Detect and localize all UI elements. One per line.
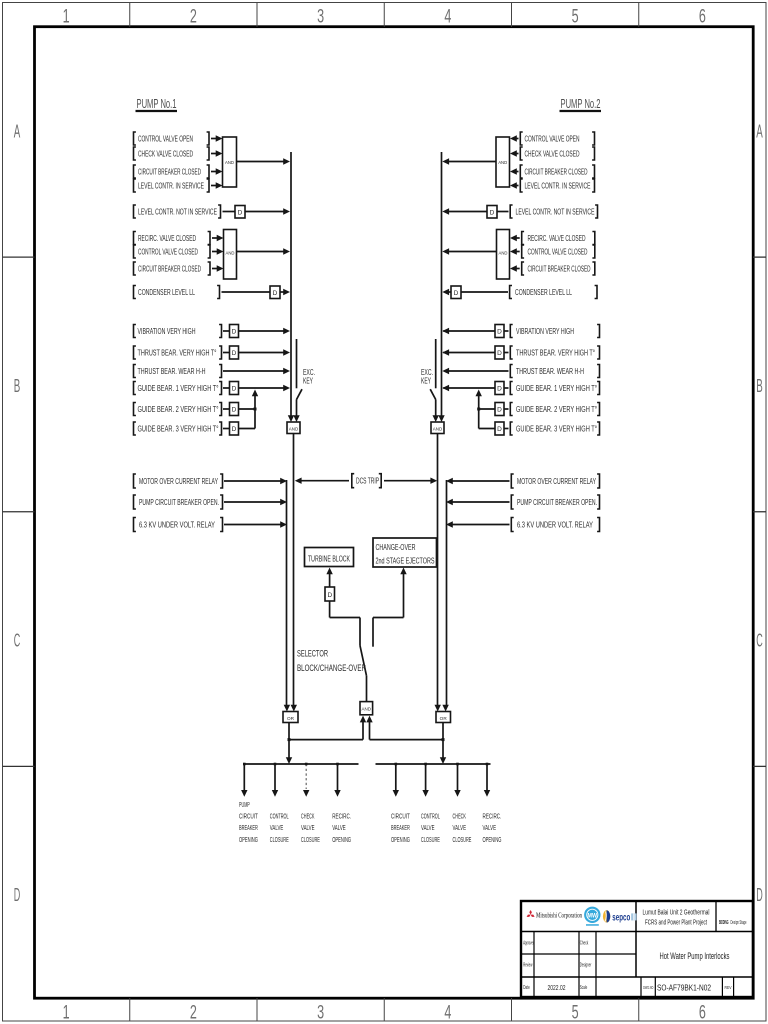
svg-text:6.3 KV UNDER VOLT. RELAY: 6.3 KV UNDER VOLT. RELAY [517, 519, 593, 529]
svg-text:THRUST BEAR. VERY HIGH T°: THRUST BEAR. VERY HIGH T° [138, 347, 217, 357]
svg-text:D: D [497, 386, 502, 393]
svg-text:D: D [232, 407, 237, 414]
svg-text:BREAKER: BREAKER [391, 825, 410, 832]
svg-text:CONTROL: CONTROL [270, 814, 289, 821]
svg-text:6.3 KV UNDER VOLT. RELAY: 6.3 KV UNDER VOLT. RELAY [139, 519, 215, 529]
svg-text:3: 3 [317, 7, 324, 28]
svg-text:VALVE: VALVE [483, 825, 497, 832]
svg-text:CIRCUIT BREAKER CLOSED: CIRCUIT BREAKER CLOSED [525, 166, 588, 176]
svg-text:C: C [756, 631, 763, 651]
svg-text:CHANGE-OVER: CHANGE-OVER [376, 543, 416, 552]
svg-text:GUIDE BEAR. 3 VERY HIGH T°: GUIDE BEAR. 3 VERY HIGH T° [138, 423, 219, 433]
svg-text:4: 4 [444, 1003, 451, 1024]
svg-text:2022.02: 2022.02 [548, 983, 566, 992]
svg-text:5: 5 [572, 1003, 579, 1024]
svg-text:Scale: Scale [580, 985, 588, 991]
svg-text:D: D [232, 426, 237, 433]
svg-text:D: D [497, 329, 502, 336]
svg-text:CLOSURE: CLOSURE [301, 837, 320, 844]
svg-text:D: D [232, 329, 237, 336]
svg-text:VALVE: VALVE [301, 825, 315, 832]
svg-text:VALVE: VALVE [453, 825, 467, 832]
svg-text:FCRS and Power Plant Project: FCRS and Power Plant Project [645, 918, 708, 927]
svg-text:CHECK: CHECK [453, 814, 467, 821]
svg-text:MW: MW [588, 912, 598, 919]
svg-text:CIRCUIT BREAKER CLOSED: CIRCUIT BREAKER CLOSED [138, 263, 201, 273]
svg-text:OPENING: OPENING [239, 837, 258, 844]
svg-text:CONTROL: CONTROL [421, 814, 440, 821]
svg-text:CIRCUIT BREAKER CLOSED: CIRCUIT BREAKER CLOSED [528, 263, 591, 273]
svg-text:B: B [756, 376, 763, 396]
svg-text:CONTROL VALVE CLOSED: CONTROL VALVE CLOSED [528, 246, 588, 256]
svg-text:OPENING: OPENING [332, 837, 351, 844]
svg-text:AND: AND [362, 707, 372, 712]
svg-text:2: 2 [190, 7, 197, 28]
svg-text:THRUST BEAR. WEAR H-H: THRUST BEAR. WEAR H-H [516, 366, 584, 376]
svg-text:OPENING: OPENING [483, 837, 502, 844]
svg-text:THRUST BEAR. WEAR H-H: THRUST BEAR. WEAR H-H [138, 366, 206, 376]
svg-text:B: B [14, 376, 21, 396]
svg-text:GUIDE BEAR. 2 VERY HIGH T°: GUIDE BEAR. 2 VERY HIGH T° [138, 404, 219, 414]
svg-text:DCS TRIP: DCS TRIP [356, 477, 379, 486]
svg-text:Date: Date [523, 985, 530, 991]
svg-text:OPENING: OPENING [391, 837, 410, 844]
svg-text:A: A [756, 121, 763, 141]
svg-text:TURBINE BLOCK: TURBINE BLOCK [308, 555, 351, 564]
svg-text:CLOSURE: CLOSURE [421, 837, 440, 844]
svg-text:D: D [14, 885, 21, 905]
svg-text:Design Stage: Design Stage [731, 920, 747, 926]
svg-text:RECIRC.: RECIRC. [483, 814, 502, 821]
svg-text:6: 6 [699, 7, 706, 28]
svg-text:MOTOR OVER CURRENT RELAY: MOTOR OVER CURRENT RELAY [139, 476, 218, 486]
svg-text:AND: AND [225, 160, 234, 165]
svg-text:CLOSURE: CLOSURE [270, 837, 289, 844]
svg-text:GUIDE BEAR. 2 VERY HIGH T°: GUIDE BEAR. 2 VERY HIGH T° [516, 404, 597, 414]
svg-text:CIRCUIT: CIRCUIT [391, 814, 410, 821]
svg-text:2nd STAGE EJECTORS: 2nd STAGE EJECTORS [376, 557, 435, 566]
svg-text:PUMP CIRCUIT BREAKER OPEN.: PUMP CIRCUIT BREAKER OPEN. [139, 497, 219, 507]
svg-text:VIBRATION VERY HIGH: VIBRATION VERY HIGH [138, 326, 196, 336]
svg-text:PUMP CIRCUIT BREAKER OPEN.: PUMP CIRCUIT BREAKER OPEN. [517, 497, 597, 507]
svg-text:1: 1 [63, 1003, 70, 1024]
svg-text:LEVEL CONTR. IN SERVICE: LEVEL CONTR. IN SERVICE [525, 180, 591, 190]
svg-text:BREAKER: BREAKER [239, 825, 258, 832]
svg-text:6: 6 [699, 1003, 706, 1024]
svg-text:D: D [232, 350, 237, 357]
svg-text:AND: AND [499, 251, 508, 256]
svg-text:D: D [232, 386, 237, 393]
svg-text:CHECK VALVE CLOSED: CHECK VALVE CLOSED [138, 148, 193, 158]
svg-text:LEVEL CONTR. IN SERVICE: LEVEL CONTR. IN SERVICE [138, 180, 204, 190]
svg-text:D: D [497, 426, 502, 433]
svg-text:5: 5 [572, 7, 579, 28]
svg-text:Designer: Designer [580, 963, 592, 969]
svg-text:AND: AND [226, 251, 235, 256]
svg-text:SELECTOR: SELECTOR [297, 649, 328, 660]
svg-text:GUIDE BEAR. 3 VERY HIGH T°: GUIDE BEAR. 3 VERY HIGH T° [516, 423, 597, 433]
svg-text:D: D [756, 885, 763, 905]
svg-text:CONTROL VALVE OPEN: CONTROL VALVE OPEN [525, 133, 580, 143]
svg-text:REV: REV [725, 985, 733, 991]
svg-text:D: D [490, 210, 495, 217]
svg-text:CONDENSER LEVEL LL: CONDENSER LEVEL LL [138, 287, 195, 297]
svg-text:LEVEL CONTR. NOT IN SERVICE: LEVEL CONTR. NOT IN SERVICE [516, 206, 595, 216]
svg-text:Approved: Approved [523, 940, 534, 946]
svg-text:1: 1 [63, 7, 70, 28]
svg-text:KEY: KEY [303, 376, 313, 386]
svg-text:CHECK VALVE CLOSED: CHECK VALVE CLOSED [525, 148, 580, 158]
svg-text:4: 4 [444, 7, 451, 28]
svg-text:Mitsubishi Corporation: Mitsubishi Corporation [536, 911, 582, 919]
svg-text:PUMP: PUMP [239, 802, 250, 809]
svg-text:Hot Water Pump Interlocks: Hot Water Pump Interlocks [660, 951, 730, 961]
svg-text:Check: Check [580, 940, 589, 946]
svg-text:DWG.NO: DWG.NO [643, 985, 653, 991]
svg-text:RECIRC. VALVE CLOSED: RECIRC. VALVE CLOSED [138, 233, 196, 243]
svg-text:VALVE: VALVE [270, 825, 284, 832]
svg-text:MOTOR OVER CURRENT RELAY: MOTOR OVER CURRENT RELAY [517, 476, 596, 486]
svg-text:2: 2 [190, 1003, 197, 1024]
svg-text:BLOCK/CHANGE-OVER: BLOCK/CHANGE-OVER [297, 663, 366, 674]
svg-text:D: D [238, 210, 243, 217]
svg-text:CIRCUIT BREAKER CLOSED: CIRCUIT BREAKER CLOSED [138, 166, 201, 176]
svg-text:SO-AF79BK1-N02: SO-AF79BK1-N02 [657, 983, 711, 993]
svg-text:3: 3 [317, 1003, 324, 1024]
svg-text:THRUST BEAR. VERY HIGH T°: THRUST BEAR. VERY HIGH T° [516, 347, 595, 357]
svg-text:VALVE: VALVE [332, 825, 346, 832]
svg-text:D: D [327, 592, 332, 599]
svg-text:D: D [497, 350, 502, 357]
svg-text:AND: AND [498, 160, 507, 165]
svg-text:GUIDE BEAR. 1 VERY HIGH T°: GUIDE BEAR. 1 VERY HIGH T° [516, 383, 597, 393]
svg-text:KEY: KEY [421, 376, 431, 386]
svg-text:OR: OR [440, 716, 448, 721]
svg-text:LEVEL CONTR. NOT IN SERVICE: LEVEL CONTR. NOT IN SERVICE [138, 206, 217, 216]
svg-text:PUMP No.2: PUMP No.2 [561, 97, 601, 111]
svg-text:C: C [14, 631, 21, 651]
svg-text:GUIDE BEAR. 1 VERY HIGH T°: GUIDE BEAR. 1 VERY HIGH T° [138, 383, 219, 393]
svg-text:D: D [273, 290, 278, 297]
svg-text:VALVE: VALVE [421, 825, 435, 832]
svg-text:AND: AND [433, 427, 443, 432]
svg-text:Review: Review [523, 963, 532, 969]
svg-text:CONTROL VALVE OPEN: CONTROL VALVE OPEN [138, 133, 193, 143]
svg-text:D: D [454, 290, 459, 297]
svg-text:VIBRATION VERY HIGH: VIBRATION VERY HIGH [516, 326, 574, 336]
svg-text:A: A [14, 121, 21, 141]
svg-text:D: D [497, 407, 502, 414]
svg-text:RECIRC.: RECIRC. [332, 814, 351, 821]
svg-text:PUMP No.1: PUMP No.1 [137, 97, 177, 111]
svg-text:CLOSURE: CLOSURE [453, 837, 472, 844]
svg-text:Lumut Balai Unit 2 Geothermal: Lumut Balai Unit 2 Geothermal [643, 908, 710, 917]
svg-text:CHECK: CHECK [301, 814, 315, 821]
svg-text:AND: AND [289, 427, 299, 432]
svg-text:RECIRC. VALVE CLOSED: RECIRC. VALVE CLOSED [528, 233, 586, 243]
svg-text:CONDENSER LEVEL LL: CONDENSER LEVEL LL [515, 287, 572, 297]
svg-text:OR: OR [287, 716, 295, 721]
svg-text:sepco: sepco [612, 913, 630, 924]
svg-text:BIDDING: BIDDING [719, 920, 729, 926]
svg-text:CIRCUIT: CIRCUIT [239, 814, 258, 821]
svg-text:CONTROL VALVE CLOSED: CONTROL VALVE CLOSED [138, 246, 198, 256]
